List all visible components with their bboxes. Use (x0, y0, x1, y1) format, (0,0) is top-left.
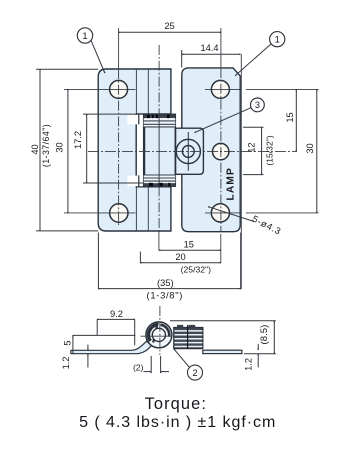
left leaf plate with tabs (98, 69, 171, 231)
svg-text:15: 15 (184, 239, 194, 249)
dim 17.2 left (86, 114, 88, 183)
side knuckle horizontal centerline (141, 335, 173, 337)
svg-text:(25/32"): (25/32") (181, 265, 211, 275)
dim 30 left (67, 89, 69, 212)
centerline main horizontal axis (88, 150, 297, 152)
dim 40 left (39, 69, 41, 231)
side torque block mid line (187, 325, 189, 349)
hole left top (110, 80, 128, 98)
left leaf bend line A (135, 69, 137, 231)
knuckle barrel (144, 114, 176, 186)
side torque block (174, 328, 203, 349)
svg-text:9.2: 9.2 (110, 309, 123, 319)
dim 14.4 (182, 53, 241, 55)
hole right bottom (211, 204, 229, 222)
hole left bottom (110, 204, 128, 222)
svg-text:3: 3 (255, 100, 260, 110)
knuckle top stripe lines (144, 121, 176, 127)
side torque block white stripes (174, 331, 202, 347)
hole right top (211, 80, 229, 98)
svg-text:5: 5 (62, 340, 72, 345)
svg-text:(15/32"): (15/32") (264, 135, 274, 165)
knuckle top band rivet dots (147, 115, 170, 119)
svg-text:1: 1 (275, 34, 280, 45)
balloon 3 (251, 98, 265, 112)
ext line 5 top (73, 334, 135, 336)
balloon 1 left (77, 28, 92, 43)
svg-text:15: 15 (285, 112, 295, 122)
dim 15 right (295, 89, 297, 151)
svg-text:(2): (2) (133, 362, 144, 372)
knuckle left edge (143, 114, 145, 186)
right leaf flange edge line (240, 54, 242, 288)
leader balloon 2 (174, 349, 190, 367)
leader balloon 3 (195, 107, 252, 132)
svg-text:LAMP: LAMP (226, 167, 237, 200)
dim 35 bottom (98, 288, 240, 290)
svg-text:2: 2 (192, 368, 197, 378)
knuckle bottom band rivet dots (149, 183, 170, 186)
center bushing vertical centerline (187, 132, 189, 171)
side right leaf curl band (161, 325, 170, 337)
side pin circle (152, 328, 165, 341)
svg-text:1.2: 1.2 (61, 356, 71, 369)
svg-text:14.4: 14.4 (200, 43, 218, 53)
dim 12 right (261, 127, 263, 174)
svg-text:5-ø4.3: 5-ø4.3 (251, 214, 283, 237)
leader balloon 1 right (235, 44, 271, 76)
left leaf bend line B (147, 69, 149, 231)
dim (2) side (151, 356, 160, 373)
dim 25 (119, 31, 221, 33)
svg-text:(35): (35) (157, 278, 174, 288)
side curled leaf left band (148, 325, 158, 341)
svg-text:(1-3/8"): (1-3/8") (147, 290, 184, 301)
side knuckle outer circle (146, 322, 172, 348)
knuckle top stripe zone pale (144, 118, 176, 127)
side right leaf strip (203, 350, 242, 353)
centerline bottom hole row (64, 212, 319, 214)
svg-text:12: 12 (247, 142, 257, 152)
knuckle top dark band (144, 115, 176, 118)
dim 30 right (316, 89, 318, 212)
dim 9.2 side (97, 318, 135, 320)
knuckle bottom stripe zone pale (144, 175, 176, 183)
side curled leaf end line (153, 323, 158, 343)
knuckle pin seam line (158, 115, 160, 187)
dim 5 side (72, 335, 74, 354)
hole right mid (213, 143, 229, 159)
svg-text:30: 30 (54, 142, 64, 152)
center bushing inner circle (182, 146, 194, 158)
knuckle bottom stripe lines (144, 175, 176, 181)
svg-text:17.2: 17.2 (73, 131, 83, 149)
centerline hinge pin axis (158, 45, 160, 114)
knuckle bottom dark band (144, 183, 176, 186)
svg-text:Torque:: Torque: (145, 395, 207, 413)
balloon 2 (188, 365, 203, 380)
leader 5-dia4.3 (208, 207, 254, 222)
svg-text:(1-37/64"): (1-37/64") (41, 124, 51, 167)
centerline left hole column (118, 28, 120, 69)
svg-text:30: 30 (305, 143, 315, 153)
side knuckle centerline (159, 306, 161, 355)
svg-text:1.2: 1.2 (244, 358, 254, 371)
notch edge line (138, 114, 140, 187)
notch top (127, 115, 143, 125)
side torque block top bumps (177, 325, 195, 328)
centerline top hole row (64, 88, 319, 90)
right leaf (182, 68, 240, 232)
center square piece (176, 128, 204, 174)
side left leaf strip with bend (71, 341, 152, 354)
center bushing outer circle (176, 139, 200, 163)
svg-text:20: 20 (175, 252, 185, 262)
svg-text:25: 25 (164, 21, 174, 31)
svg-text:5 ( 4.3 lbs·in ) ±1 kgf·cm: 5 ( 4.3 lbs·in ) ±1 kgf·cm (79, 414, 276, 431)
leader balloon 1 left (91, 40, 105, 73)
svg-text:1: 1 (82, 30, 87, 41)
svg-text:(8.5): (8.5) (259, 325, 270, 345)
centerline right hole column (220, 28, 222, 68)
dim 20 bottom (140, 262, 221, 264)
notch bottom (127, 176, 143, 187)
balloon 1 right (270, 32, 285, 47)
svg-text:40: 40 (30, 144, 40, 154)
dim (8.5) side (170, 321, 276, 354)
dim 15 bottom (159, 249, 221, 251)
dim 1.2 side right (257, 344, 259, 350)
dim 1.2 side left (87, 345, 89, 351)
